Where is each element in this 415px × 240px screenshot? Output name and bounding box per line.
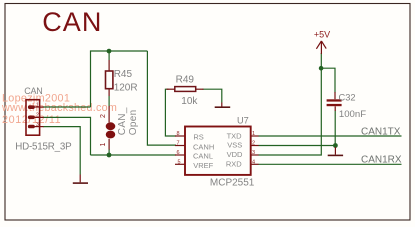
svg-text:www.thebackshed.com: www.thebackshed.com xyxy=(1,102,117,114)
svg-text:7: 7 xyxy=(177,140,180,146)
svg-text:CAN1RX: CAN1RX xyxy=(361,155,402,166)
svg-text:VDD: VDD xyxy=(227,150,243,159)
svg-text:8: 8 xyxy=(177,131,180,137)
svg-text:R45: R45 xyxy=(114,69,133,80)
svg-text:3: 3 xyxy=(36,122,39,128)
svg-text:6: 6 xyxy=(177,150,180,156)
svg-text:1: 1 xyxy=(252,131,255,137)
svg-text:CAN: CAN xyxy=(24,86,42,96)
svg-text:+5V: +5V xyxy=(314,29,330,39)
svg-text:MCP2551: MCP2551 xyxy=(210,177,255,188)
svg-text:CAN1TX: CAN1TX xyxy=(361,127,401,138)
svg-text:4: 4 xyxy=(252,159,255,165)
svg-text:CAN_: CAN_ xyxy=(117,107,128,135)
svg-text:CANH: CANH xyxy=(193,143,214,152)
svg-text:2: 2 xyxy=(36,113,39,119)
svg-text:R49: R49 xyxy=(176,74,195,85)
svg-text:120R: 120R xyxy=(114,83,138,94)
svg-text:C32: C32 xyxy=(339,93,356,103)
svg-text:VSS: VSS xyxy=(227,141,242,150)
svg-text:RS: RS xyxy=(193,132,203,141)
svg-text:HD-515R_3P: HD-515R_3P xyxy=(15,142,72,153)
svg-text:U7: U7 xyxy=(237,115,249,125)
svg-text:VREF: VREF xyxy=(193,161,213,170)
svg-text:3: 3 xyxy=(252,150,255,156)
svg-text:TXD: TXD xyxy=(227,131,243,140)
svg-text:RXD: RXD xyxy=(226,159,242,168)
svg-text:10k: 10k xyxy=(181,96,198,107)
svg-text:1: 1 xyxy=(100,143,107,147)
svg-text:100nF: 100nF xyxy=(339,109,366,120)
svg-text:5: 5 xyxy=(178,159,181,165)
svg-text:Open: Open xyxy=(128,110,139,136)
svg-text:CAN: CAN xyxy=(42,7,102,37)
svg-text:1: 1 xyxy=(36,102,39,108)
svg-text:CANL: CANL xyxy=(193,152,213,161)
svg-text:2: 2 xyxy=(100,114,107,118)
svg-text:2: 2 xyxy=(252,140,255,146)
